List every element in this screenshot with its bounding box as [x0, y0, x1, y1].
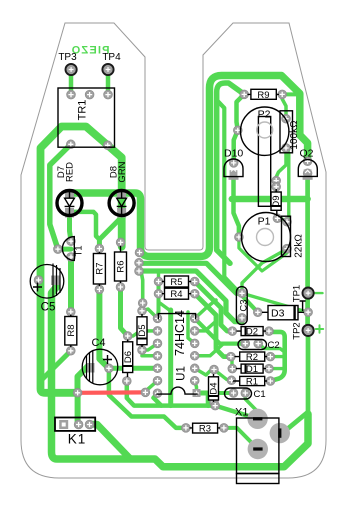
- capacitor C3: [236, 287, 247, 325]
- R3 pads: [182, 424, 191, 433]
- wire: U1 inner vertical 1: [168, 310, 173, 406]
- junction below D8: [116, 238, 125, 247]
- wire: C3 top pad under P1: [242, 249, 287, 293]
- C1 pads: [229, 389, 238, 398]
- resistor R9: [248, 89, 280, 99]
- wire: shallow link C3 top to D3 right pad: [242, 293, 308, 312]
- wire: rail to TR1 left pad and T1: [50, 144, 71, 249]
- wire: U1 pin1 to rail: [197, 393, 209, 406]
- transformer TR1: [58, 88, 115, 147]
- wire: D8 bottom to R7 top: [99, 217, 121, 249]
- pot P1: [242, 213, 291, 262]
- Q2 pads: [303, 157, 312, 166]
- wire: C4 left pad to red junction: [78, 366, 89, 393]
- wire: K1 right pad to bottom rail: [89, 424, 131, 459]
- svg-text:R6: R6: [116, 260, 127, 272]
- wire: R7 bottom down to C4 pad: [99, 289, 109, 368]
- T1 pads: [67, 237, 76, 246]
- svg-text:R8: R8: [66, 324, 77, 336]
- svg-text:X1: X1: [235, 407, 248, 419]
- wire: U1 row6R to pin1 square: [195, 381, 197, 393]
- wire: TP2 plus: [316, 325, 323, 332]
- wire: fan band2 to C3 top pad: [139, 263, 242, 293]
- wire: fan band3 to C3 bottom: [139, 271, 242, 322]
- wire: inner loop up to R9 left pad: [217, 83, 245, 250]
- board outline: [21, 23, 326, 478]
- R9 pads: [240, 90, 249, 99]
- svg-text:RED: RED: [65, 162, 76, 182]
- R5 R4 pads: [154, 277, 163, 286]
- wire: T1 bottom pad to R8 top: [68, 257, 74, 312]
- D3 pads: [253, 308, 262, 317]
- wire: D1 right stub: [269, 367, 285, 370]
- wire: D10 bottom to P1 left pad: [234, 174, 239, 237]
- wire: rail to X1 pad1: [215, 406, 257, 419]
- resistor R7: [93, 252, 105, 286]
- diode D4: [209, 374, 219, 402]
- diode D6: [123, 340, 133, 378]
- wire: Q2 bottom to TP chain: [305, 173, 310, 330]
- diode D1: [236, 364, 266, 373]
- svg-text:D6: D6: [123, 351, 134, 363]
- wire: main left rail through TR1 right pad and D8: [41, 127, 122, 393]
- svg-text:C1: C1: [254, 389, 266, 400]
- U1 pin1 square pad: [193, 389, 201, 397]
- transistor D10: [224, 159, 243, 180]
- wire: fan R4 right to R2 left: [195, 294, 231, 357]
- svg-text:K1: K1: [68, 432, 87, 447]
- svg-text:P1: P1: [258, 216, 271, 228]
- wire: P1 left pad under P1: [239, 237, 287, 271]
- pads layer: [34, 64, 314, 459]
- labels layer: [41, 52, 314, 447]
- svg-text:D4: D4: [209, 382, 220, 394]
- IC U1 outline: [158, 314, 195, 320]
- transistor Q2: [298, 160, 317, 180]
- svg-text:C2: C2: [268, 340, 280, 351]
- wire: D4 bottom to rail: [212, 404, 216, 406]
- X1 big pads: [247, 409, 290, 460]
- svg-text:P2: P2: [258, 109, 271, 121]
- svg-text:D2: D2: [246, 326, 258, 337]
- wire: 100k bottom down to P1 right: [286, 148, 289, 222]
- P2 pads: [233, 126, 242, 135]
- D4 pads: [210, 365, 219, 374]
- resistor R4: [162, 288, 191, 299]
- resistor R6: [115, 246, 127, 283]
- C4 pad: [105, 364, 114, 373]
- capacitor C4: [82, 349, 118, 385]
- diode D9: [271, 189, 281, 216]
- fan junction pads: [135, 258, 144, 267]
- wire: R9 left pad down to P2 left pad: [237, 94, 245, 130]
- wire: U1 right pads: [195, 300, 216, 318]
- capacitor C5: [30, 264, 64, 299]
- wire: D7 bottom right link to R7: [70, 212, 100, 240]
- wire: R3 right to X1 pad3: [224, 428, 258, 449]
- wire: R8 bottom diagonal to left rail: [41, 351, 71, 381]
- R6 pads: [116, 283, 125, 292]
- wire: TP3 stub: [69, 73, 74, 95]
- C2 pads: [241, 339, 250, 348]
- connector K1: [55, 418, 95, 431]
- wire: red jumper: [78, 390, 146, 395]
- svg-text:D3: D3: [271, 308, 285, 320]
- svg-text:GRN: GRN: [117, 161, 128, 182]
- capacitor C2: [238, 340, 267, 350]
- wire: bottom ground rail: [52, 287, 309, 467]
- wire: jog R4L to inner vertical: [159, 302, 171, 311]
- wire: K1 mid pad up: [75, 393, 81, 425]
- wire: D9 bottom to P1: [277, 217, 287, 222]
- wire: TP2 down to X1: [280, 330, 308, 433]
- R8 pads: [66, 308, 75, 317]
- D10 pads: [229, 159, 238, 168]
- svg-text:100kΩ: 100kΩ: [289, 120, 300, 150]
- wire: 100k bottom to D9 top: [276, 148, 286, 190]
- wire: R5 left to R4 left to U1 pin: [158, 282, 159, 319]
- battery clip X1: [237, 418, 279, 484]
- R7 pads: [95, 244, 104, 253]
- C3 pads: [238, 289, 247, 298]
- svg-text:74HC14: 74HC14: [173, 310, 187, 356]
- diode D2: [237, 327, 267, 336]
- svg-text:22kΩ: 22kΩ: [294, 234, 305, 258]
- wire: thick horizontal under D9 to Q2 net: [232, 196, 308, 203]
- svg-text:R1: R1: [246, 376, 258, 387]
- svg-text:R5: R5: [170, 277, 182, 288]
- wire: R9 right stub to loop: [282, 92, 296, 96]
- TR1 pads: [67, 90, 76, 99]
- svg-text:R3: R3: [199, 423, 211, 434]
- test point pads: [66, 64, 77, 75]
- C5 pad: [34, 276, 43, 285]
- resistor R1: [233, 376, 267, 385]
- svg-text:R2: R2: [246, 352, 258, 363]
- svg-text:D1: D1: [246, 364, 258, 375]
- resistor R3: [190, 423, 221, 433]
- svg-text:C5: C5: [41, 302, 56, 314]
- wire: notch loop from LED row around notch, right edge and bottom: [70, 76, 308, 257]
- svg-text:TP2: TP2: [292, 322, 303, 339]
- svg-text:R4: R4: [170, 289, 182, 300]
- wire: R6 bottom to D6 top: [121, 287, 128, 336]
- pot P2: [241, 107, 293, 206]
- svg-text:U1: U1: [176, 366, 188, 381]
- svg-text:D9: D9: [271, 195, 282, 207]
- wire: C4 center pad down to R3 rail: [109, 368, 186, 428]
- svg-text:TR1: TR1: [77, 100, 89, 121]
- resistor R8: [65, 315, 77, 348]
- U1 pads: [153, 314, 162, 323]
- wire: branch x224 down into corridor to D3 left: [217, 100, 258, 312]
- D1 pads: [228, 364, 237, 373]
- wire: C2 right stub: [259, 344, 285, 352]
- bottom rail pads: [211, 401, 220, 410]
- wire: 100k top pad stub: [282, 99, 286, 119]
- wire: TP1 minus: [316, 292, 323, 294]
- wire: D6 bottom down to U1 rail: [127, 381, 162, 406]
- D5 pads: [138, 306, 147, 315]
- svg-text:D5: D5: [137, 324, 148, 336]
- wire: T1 pads row: [58, 247, 71, 252]
- svg-text:Q2: Q2: [300, 148, 314, 160]
- svg-text:R9: R9: [257, 90, 269, 101]
- wire: inner loop bottom bend: [217, 250, 230, 263]
- diode D5: [137, 314, 147, 347]
- capacitor C1: [225, 388, 252, 399]
- resistor R5: [162, 276, 191, 287]
- svg-text:C3: C3: [239, 299, 250, 311]
- wire: D7 bottom to T1 top pad: [70, 215, 72, 241]
- wire: U1 inner vertical 2: [188, 312, 195, 343]
- transistor T1: [62, 237, 74, 261]
- R2 pads: [227, 352, 236, 361]
- D6 pads: [123, 332, 132, 341]
- resistor R2: [235, 352, 268, 361]
- svg-text:TP4: TP4: [102, 52, 121, 63]
- junction pads left: [73, 388, 82, 397]
- svg-text:TP3: TP3: [58, 52, 77, 63]
- wire: fan R5 right to D2 left: [195, 282, 233, 332]
- svg-text:D10: D10: [224, 148, 243, 160]
- wire: right-side vertical linking D2R R2R D1R R1R: [270, 332, 284, 381]
- LED D7: [57, 189, 82, 218]
- silkscreen layer: [30, 88, 317, 484]
- svg-text:TP1: TP1: [292, 285, 303, 302]
- svg-text:R7: R7: [95, 262, 106, 274]
- wire: TP4 stub: [106, 73, 111, 95]
- wire: band3 down to D5 top: [141, 271, 143, 311]
- P1 pads: [235, 233, 244, 242]
- LED D8: [109, 189, 134, 218]
- svg-text:C4: C4: [91, 337, 105, 349]
- K1 pads: [59, 420, 68, 429]
- svg-text:T1: T1: [74, 245, 85, 256]
- wire: P2 left pad down to D10 top: [234, 130, 238, 163]
- wire: C4 center pad right to U1 row5: [109, 366, 158, 371]
- D2 pads: [228, 327, 237, 336]
- wire: R5 left up to band3: [157, 271, 160, 282]
- wire: U1 left pads: [142, 309, 158, 318]
- diode D3: [262, 301, 306, 320]
- R1 pads: [227, 376, 236, 385]
- wire: bottom rail under U1: [154, 393, 216, 405]
- D9 pads: [272, 176, 281, 185]
- wire: R2 right stub: [270, 355, 284, 358]
